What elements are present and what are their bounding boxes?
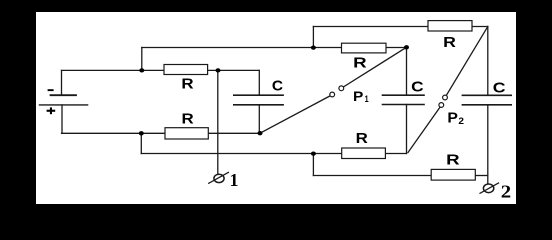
wire row4 right of R6 to right rail: [475, 175, 488, 177]
junction dot bottom rail end / C1 / P1: [258, 131, 263, 135]
probe P1 contact circle upper: [339, 86, 344, 91]
junction dot row2 / top-wire stub: [311, 45, 316, 49]
probe P2 diagonal lower segment: [408, 107, 440, 153]
junction dot node B (row2 / P1 / C2): [404, 45, 409, 49]
capacitor C1 plates: [234, 94, 283, 96]
svg-text:C: C: [272, 78, 283, 95]
wire row2 (y=47.5) from left corner to resistor R3: [142, 47, 342, 49]
wire battery top lead: [61, 70, 63, 95]
terminal 2 slash: [480, 183, 499, 193]
wire row2 right of R3 to node B: [386, 47, 407, 49]
wire top rail (y=70.4) battery to R1: [62, 69, 165, 71]
svg-text:C: C: [411, 79, 424, 96]
battery plus sign: [47, 107, 56, 114]
svg-text:P: P: [447, 110, 458, 127]
svg-text:R: R: [353, 55, 367, 72]
junction dot row3 / row4 stub: [311, 151, 316, 155]
terminal 2 circle: [483, 184, 493, 193]
svg-text:2: 2: [458, 116, 464, 126]
resistor R3 body (row2): [342, 43, 387, 53]
wire row3 (y=153.5) to resistor R5: [141, 153, 341, 155]
svg-text:P: P: [353, 88, 363, 104]
resistor R2 body (bottom-left rail): [165, 128, 208, 139]
resistor R4 body (top wire): [428, 21, 472, 31]
svg-text:1: 1: [365, 94, 369, 104]
svg-text:R: R: [356, 130, 368, 147]
wire right rail upper (to capacitor C3 top plate): [487, 27, 489, 96]
wire stub x=141.3 bottom rail down to row3: [140, 133, 142, 153]
wire capacitor C2 bottom lead down to row3: [406, 105, 408, 154]
battery B1 long positive plate: [40, 104, 88, 106]
probe P1 diagonal upper segment: [343, 47, 406, 87]
wire bottom rail (y=133.3) battery to R2: [62, 132, 166, 134]
junction dot top rail / terminal-1 drop: [216, 68, 221, 72]
wire bottom rail R2 to node C (crosses terminal-1 drop): [208, 132, 260, 134]
wire terminal-1 drop x=217.8: [217, 70, 219, 174]
wire capacitor C1 bottom lead: [258, 105, 260, 133]
wire capacitor C1 top lead: [258, 70, 260, 95]
wire top right segment to right rail: [472, 26, 488, 28]
svg-text:C: C: [493, 80, 506, 97]
junction dot top rail / row2 stub: [139, 68, 144, 72]
svg-text:R: R: [443, 34, 456, 51]
resistor R6 body (row4 bottom-right): [431, 169, 475, 180]
svg-text:R: R: [181, 75, 193, 92]
probe P1 diagonal lower segment: [260, 96, 330, 133]
wire row4 (y=175.5) to resistor R6: [313, 175, 431, 177]
svg-text:R: R: [182, 110, 194, 127]
wire row3 right of R5 to corner under C2: [385, 153, 406, 155]
wire stub x=313.4 row3 down to row4: [312, 154, 314, 176]
svg-text:2: 2: [501, 182, 511, 202]
battery minus sign: [48, 89, 54, 91]
probe P1 contact circle lower: [330, 92, 335, 97]
white schematic field: [36, 12, 516, 204]
svg-text:1: 1: [230, 170, 239, 190]
probe P2 contact circle upper: [443, 95, 448, 100]
probe P2 diagonal upper segment: [446, 27, 488, 96]
wire top (y=26.5) left segment: [313, 26, 428, 28]
wire stub x=141.8 down to top rail: [141, 48, 143, 71]
wire battery bottom lead: [61, 105, 63, 133]
terminal 1 slash: [209, 172, 229, 183]
wire right rail lower (C3 bottom plate to terminal 2): [487, 105, 489, 184]
battery B1 short negative plate: [51, 94, 77, 96]
resistor R1 body (top-left rail): [164, 65, 208, 75]
svg-text:R: R: [446, 151, 460, 168]
wire top rail R1 to capacitor C1 corner: [208, 69, 260, 71]
terminal 1 circle: [214, 174, 224, 182]
wire stub x=313.4 from top wire down to node A: [312, 27, 314, 48]
junction dot bottom rail / row3 stub: [139, 131, 144, 135]
resistor R5 body (row3): [342, 148, 386, 159]
capacitor C3 plates: [462, 94, 511, 96]
capacitor C2 plates: [383, 94, 425, 96]
probe P2 contact circle lower: [439, 103, 444, 108]
wire capacitor C2 top lead from node B: [406, 47, 408, 95]
